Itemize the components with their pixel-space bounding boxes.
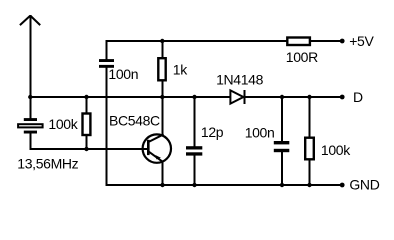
- svg-text:D: D: [353, 89, 363, 105]
- svg-text:100k: 100k: [321, 142, 351, 158]
- svg-text:+5V: +5V: [349, 33, 374, 49]
- svg-text:1k: 1k: [173, 62, 188, 78]
- svg-text:GND: GND: [349, 177, 379, 193]
- svg-text:1N4148: 1N4148: [216, 72, 264, 88]
- svg-text:100n: 100n: [108, 66, 138, 82]
- svg-text:100k: 100k: [48, 116, 78, 132]
- svg-text:BC548C: BC548C: [109, 113, 160, 129]
- svg-text:13,56MHz: 13,56MHz: [17, 156, 78, 172]
- svg-text:12p: 12p: [201, 124, 224, 140]
- svg-text:100n: 100n: [245, 125, 275, 141]
- svg-text:100R: 100R: [286, 49, 318, 65]
